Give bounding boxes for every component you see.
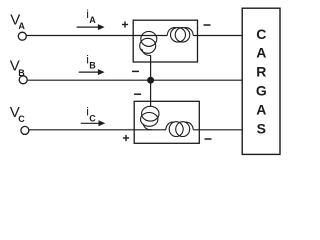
svg-text:C: C — [89, 114, 96, 124]
polarity plus W2 — [123, 135, 129, 141]
current arrow label iC — [86, 105, 96, 124]
terminal label VC — [10, 104, 25, 124]
wattmeter W1 box — [133, 20, 197, 62]
svg-text:A: A — [256, 101, 266, 117]
wattmeter W2 box — [134, 101, 199, 143]
wattmeter W1 voltage coil — [140, 31, 157, 55]
svg-text:B: B — [89, 61, 96, 71]
svg-text:A: A — [256, 44, 266, 60]
svg-text:R: R — [256, 63, 266, 79]
current arrow iC — [81, 120, 106, 126]
wattmeter W2 current coil — [166, 122, 193, 137]
svg-text:A: A — [18, 21, 25, 31]
terminal VA — [18, 32, 26, 40]
polarity minus W2 voltage coil — [134, 93, 141, 95]
polarity minus W1 voltage coil — [132, 70, 139, 72]
polarity minus W2 — [205, 138, 212, 140]
terminal VC — [21, 126, 29, 134]
current arrow iB — [79, 69, 105, 75]
wire A — [26, 35, 242, 37]
terminal label VA — [10, 11, 25, 31]
wattmeter W2 voltage coil — [141, 106, 160, 130]
svg-text:S: S — [257, 121, 266, 137]
wattmeter W1 current coil — [167, 28, 193, 43]
wire C — [29, 129, 243, 131]
node N junction dot — [147, 77, 154, 84]
terminal label VB — [10, 58, 25, 79]
polarity plus W1 — [122, 21, 128, 27]
current arrow label iB — [86, 52, 96, 70]
current arrow iA — [77, 24, 105, 30]
wire B — [27, 79, 242, 81]
svg-text:A: A — [89, 15, 96, 25]
svg-text:C: C — [256, 26, 266, 42]
terminal VB — [19, 76, 27, 84]
wire node to W2 voltage coil — [150, 80, 152, 106]
wire W1 voltage coil to node — [150, 55, 152, 80]
load box CARGAS — [242, 8, 280, 154]
svg-text:G: G — [256, 83, 267, 99]
polarity minus W1 — [204, 24, 211, 26]
svg-text:C: C — [18, 114, 25, 124]
current arrow label iA — [86, 7, 96, 25]
